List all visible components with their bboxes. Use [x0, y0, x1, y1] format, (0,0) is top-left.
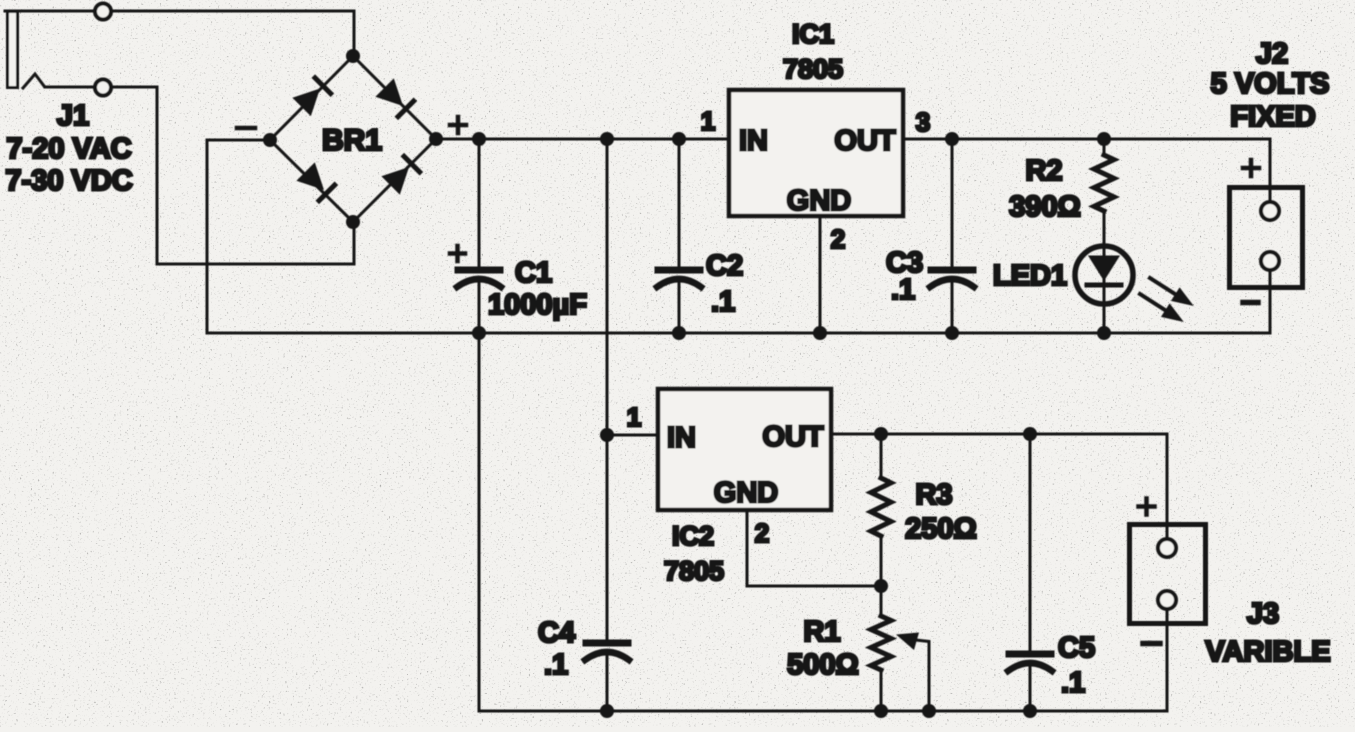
junction dot (479,333)	[472, 326, 486, 340]
junction dot (952,139)	[945, 132, 959, 146]
wire : IC2 output rail to J3 plus	[833, 434, 1167, 540]
resistor R3	[871, 478, 891, 536]
svg-text:7805: 7805	[664, 556, 724, 586]
svg-text:C5: C5	[1058, 632, 1095, 664]
svg-text:7-20 VAC: 7-20 VAC	[6, 133, 131, 165]
junction dot (1104,139)	[1097, 132, 1111, 146]
wire : IC2 input pin 1 stub	[607, 434, 658, 437]
connector J3 box	[1130, 525, 1206, 624]
junction dot (679,139)	[672, 132, 686, 146]
junction dot (952,333)	[945, 326, 959, 340]
svg-text:1: 1	[627, 402, 641, 432]
wire : raw DC feed to IC2 and C4	[606, 139, 609, 711]
connector J1 tip contact	[23, 74, 44, 88]
wire : top ground bus	[207, 270, 1270, 333]
svg-text:1: 1	[701, 106, 715, 136]
svg-text:FIXED: FIXED	[1230, 101, 1315, 133]
LED LED1 circle	[1075, 246, 1133, 304]
svg-text:.1: .1	[711, 286, 735, 318]
svg-text:390Ω: 390Ω	[1009, 191, 1081, 223]
junction dot (881,711)	[874, 704, 888, 718]
svg-text:1000µF: 1000µF	[488, 289, 587, 321]
svg-text:IN: IN	[739, 125, 768, 157]
capacitor C5 .1	[1009, 651, 1051, 658]
svg-text:.1: .1	[544, 649, 568, 681]
wire : J1 tip contact to bridge bottom (AC return)	[45, 87, 354, 264]
svg-text:C1: C1	[515, 257, 552, 289]
bridge rectifier BR1 edges	[270, 56, 436, 222]
svg-text:OUT: OUT	[834, 125, 896, 157]
capacitor C4 .1	[586, 640, 628, 647]
capacitor C3 .1	[931, 267, 973, 274]
wire : R1 branch to bottom bus	[880, 586, 883, 711]
resistor R2	[1094, 155, 1114, 211]
junction dot (607,435)	[600, 428, 614, 442]
LED light emission arrow upper	[1146, 271, 1198, 312]
capacitor C1 1000uF	[458, 267, 500, 274]
LED LED1 triangle and cathode bar	[1087, 256, 1121, 286]
terminal circle J2 plus	[1261, 202, 1279, 220]
svg-text:7805: 7805	[783, 54, 843, 84]
junction dot (929,711)	[922, 704, 936, 718]
svg-text:3: 3	[916, 107, 930, 137]
capacitor C2 .1	[658, 267, 700, 274]
LED light emission arrow lower	[1136, 287, 1188, 328]
junction dot (881,434)	[874, 427, 888, 441]
wire : C1 branch	[478, 139, 481, 333]
svg-text:500Ω: 500Ω	[787, 649, 859, 681]
terminal circle J3 minus	[1158, 591, 1176, 609]
wire : IC1 output rail to J2 plus	[905, 139, 1270, 202]
wire : C2 branch	[678, 139, 681, 333]
svg-text:IC2: IC2	[672, 521, 714, 551]
svg-text:.1: .1	[891, 274, 915, 306]
svg-text:.1: .1	[1061, 667, 1085, 699]
svg-text:C4: C4	[538, 617, 575, 649]
svg-text:J2: J2	[1256, 38, 1288, 70]
diode BR1 upper-right	[375, 78, 415, 118]
junction dot (353,56)	[346, 49, 360, 63]
potentiometer R1	[871, 616, 891, 670]
svg-text:5 VOLTS: 5 VOLTS	[1211, 68, 1330, 100]
minus sign at bridge negative node	[237, 126, 255, 131]
svg-text:LED1: LED1	[993, 260, 1067, 292]
potentiometer R1 wiper arrow	[896, 633, 919, 651]
diode BR1 lower-right	[381, 155, 421, 195]
wire : IC2 GND pin 2 to R3/R1 junction	[747, 512, 881, 586]
svg-text:R1: R1	[803, 616, 840, 648]
svg-text:R3: R3	[915, 479, 952, 511]
junction dot (1030,711)	[1023, 704, 1037, 718]
wire : R1 wiper to bottom bus	[916, 640, 929, 711]
plus sign J2	[1243, 166, 1259, 171]
junction dot (436,139)	[429, 132, 443, 146]
diode BR1 upper-left	[292, 76, 332, 116]
svg-text:VARIBLE: VARIBLE	[1205, 636, 1330, 668]
voltage regulator IC2 7805 box	[658, 389, 831, 510]
connector J1 phone jack sleeve	[8, 12, 18, 88]
junction dot (353,222)	[346, 215, 360, 229]
wire : R2/LED1 branch	[1103, 139, 1106, 333]
plus sign C1	[450, 251, 465, 256]
svg-text:BR1: BR1	[322, 124, 382, 157]
svg-text:C2: C2	[706, 250, 743, 282]
diode BR1 lower-left	[296, 162, 336, 202]
wire : positive raw DC rail to IC1 pin 1	[436, 138, 727, 141]
svg-text:7-30 VDC: 7-30 VDC	[5, 165, 132, 197]
svg-text:GND: GND	[787, 185, 851, 217]
terminal circle J2 minus	[1261, 252, 1279, 270]
wire : ground interconnect drop	[478, 333, 481, 711]
wire : R3 branch	[880, 434, 883, 586]
svg-text:GND: GND	[714, 477, 778, 509]
svg-text:IN: IN	[667, 422, 696, 454]
svg-text:2: 2	[755, 518, 769, 548]
minus sign J3	[1143, 641, 1160, 647]
plus sign at bridge positive node	[450, 123, 466, 128]
terminal circle J1 ring	[95, 4, 111, 20]
junction dot (607,139)	[600, 132, 614, 146]
svg-text:OUT: OUT	[762, 421, 824, 453]
wire : IC1 GND pin 2 to ground bus	[819, 218, 822, 333]
junction dot (820,333)	[813, 326, 827, 340]
svg-text:J3: J3	[1247, 598, 1279, 630]
wire : bottom ground bus	[479, 609, 1167, 711]
junction dot (1030,434)	[1023, 427, 1037, 441]
svg-text:IC1: IC1	[792, 19, 834, 49]
voltage regulator IC1 7805 box	[729, 90, 903, 216]
junction dot (607,711)	[600, 704, 614, 718]
wire : bridge minus to ground bus	[207, 140, 270, 333]
svg-text:2: 2	[831, 224, 845, 254]
svg-text:R2: R2	[1025, 155, 1062, 187]
junction dot (1104,333)	[1097, 326, 1111, 340]
svg-text:J1: J1	[57, 100, 89, 132]
wire : C3 branch	[951, 139, 954, 333]
terminal circle J3 plus	[1158, 539, 1176, 557]
junction dot (479,139)	[472, 132, 486, 146]
minus sign J2	[1243, 300, 1258, 306]
connector J2 box	[1230, 188, 1303, 288]
svg-text:250Ω: 250Ω	[905, 513, 977, 545]
junction dot (270,140)	[263, 133, 277, 147]
plus sign J3	[1139, 504, 1155, 509]
terminal circle J1 tip	[95, 80, 111, 96]
wire : top AC wire from J1 ring to bridge top	[5, 11, 354, 56]
wire : C5 branch	[1029, 434, 1032, 711]
junction dot (881,586)	[874, 579, 888, 593]
junction dot (679,333)	[672, 326, 686, 340]
